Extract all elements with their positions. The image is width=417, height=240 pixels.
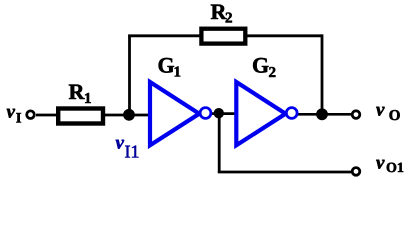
node label vI1 — [116, 140, 139, 158]
label G1 — [159, 58, 181, 77]
label R2 — [211, 5, 232, 23]
resistor R2 — [201, 29, 245, 44]
label vO — [376, 107, 400, 120]
inverter gate G1 triangle — [150, 82, 199, 145]
output terminal vO1 circle — [352, 168, 360, 176]
node vI1 junction dot — [123, 109, 135, 121]
inverter gate G1 bubble — [200, 108, 211, 119]
wire R1 to G1 input — [104, 114, 152, 117]
output terminal vO circle — [352, 111, 360, 119]
input terminal vI circle — [27, 111, 35, 119]
wire feedback top rail — [128, 34, 322, 37]
wire feedback left vertical — [128, 36, 131, 116]
label R1 — [69, 85, 91, 103]
wire feedback right vertical — [321, 34, 324, 114]
inverter gate G2 bubble — [286, 108, 297, 119]
inverter gate G2 triangle — [236, 82, 285, 145]
node G1 output junction dot — [214, 108, 224, 118]
wire input terminal to R1 — [36, 114, 60, 117]
wire G2 output to vO terminal — [296, 113, 351, 116]
wire G1 output to G2 input — [210, 112, 240, 115]
resistor R1 — [58, 109, 103, 124]
wire branch down from G1 output node — [218, 114, 221, 172]
wire bottom rail to vO1 terminal — [218, 171, 351, 174]
label vI — [7, 109, 21, 123]
label vO1 — [376, 160, 403, 172]
node vO junction dot — [316, 108, 328, 120]
label G2 — [253, 58, 275, 77]
